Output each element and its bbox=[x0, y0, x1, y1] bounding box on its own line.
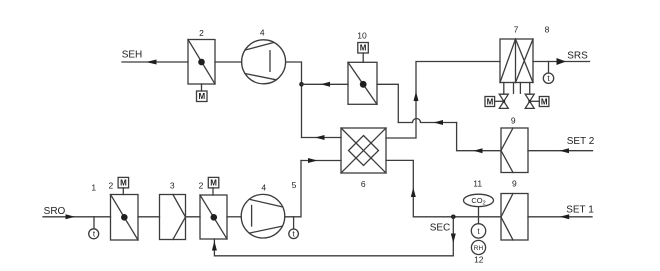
sensor t (pos 1, outdoor temp) bbox=[89, 217, 99, 239]
wire damper2 to fan4 (top) bbox=[215, 61, 242, 63]
wire supply riser from fan 4b bbox=[285, 161, 301, 217]
svg-text:9: 9 bbox=[512, 179, 517, 189]
svg-text:SET 2: SET 2 bbox=[567, 136, 595, 147]
wire SRS supply outlet bbox=[533, 61, 590, 63]
svg-text:t: t bbox=[547, 74, 550, 83]
wire SET1 main to HX6 (extract path) bbox=[386, 160, 501, 216]
wire damper10 right to downcomer bbox=[377, 84, 398, 122]
wire HX6 exhaust-out to riser bbox=[302, 137, 342, 139]
arrow on SEH wire (pointing left) bbox=[146, 60, 157, 65]
svg-text:t: t bbox=[292, 230, 295, 239]
actuator M of valve V1 bbox=[485, 97, 504, 107]
damper 2 (top exhaust) bbox=[188, 40, 215, 85]
wire damper10 to exhaust riser bbox=[302, 83, 349, 85]
sensor CO2 (pos 11) bbox=[464, 194, 494, 224]
wire SEH exhaust outlet bbox=[122, 61, 188, 63]
sensor t (pos 5, supply fan outlet) bbox=[289, 217, 299, 239]
arrow on SRS wire (pointing right) bbox=[557, 58, 567, 65]
actuator M of outdoor damper bbox=[118, 177, 129, 194]
valve V1 (left, heating) bbox=[499, 94, 508, 108]
svg-text:t: t bbox=[93, 229, 96, 238]
svg-text:11: 11 bbox=[473, 179, 482, 189]
fan 4 (exhaust fan) bbox=[242, 40, 286, 84]
svg-text:SET 1: SET 1 bbox=[566, 204, 594, 215]
actuator M of damper 10 bbox=[358, 43, 369, 63]
heating/cooling coil 7 bbox=[500, 39, 533, 83]
svg-text:1: 1 bbox=[91, 183, 96, 193]
svg-text:M: M bbox=[198, 92, 205, 101]
filter 9 (SET2) bbox=[501, 128, 528, 173]
damper 10 (recirculation) bbox=[348, 62, 377, 104]
wire damper2b to fan4b bbox=[227, 216, 241, 218]
wire filter3 to damper2b bbox=[186, 216, 201, 218]
arrow on SET1 inlet (pointing left) bbox=[560, 214, 570, 219]
svg-text:8: 8 bbox=[545, 25, 550, 35]
arrow on damper10 wire (pointing left) bbox=[321, 82, 330, 87]
actuator M of damper 2 (top) bbox=[197, 84, 208, 102]
svg-text:4: 4 bbox=[260, 28, 265, 38]
svg-text:2: 2 bbox=[199, 28, 204, 38]
svg-text:2: 2 bbox=[199, 180, 204, 190]
svg-text:M: M bbox=[360, 44, 367, 53]
arrow on SET2 branch (pointing left) bbox=[434, 120, 444, 125]
wire SET2 inlet bbox=[528, 150, 593, 152]
junction node SEC branch bbox=[451, 215, 456, 220]
svg-text:3: 3 bbox=[170, 181, 175, 191]
arrow up into supply damper bbox=[212, 241, 217, 251]
fan 4 (supply fan) bbox=[241, 194, 285, 238]
wire damper2 to filter3 bbox=[138, 216, 160, 218]
svg-text:SEC: SEC bbox=[430, 222, 451, 233]
arrow up on extract riser bbox=[411, 188, 416, 198]
svg-text:2: 2 bbox=[109, 180, 114, 190]
valve V2 (right, cooling) bbox=[525, 94, 534, 108]
filter 3 bbox=[160, 195, 186, 240]
junction node (recirc joins exhaust riser) bbox=[299, 82, 304, 87]
svg-text:12: 12 bbox=[474, 254, 484, 264]
svg-text:M: M bbox=[541, 97, 548, 106]
svg-text:RH: RH bbox=[474, 245, 484, 252]
svg-text:SRS: SRS bbox=[567, 51, 588, 62]
svg-text:6: 6 bbox=[361, 179, 366, 189]
damper 2 (recirc/supply) bbox=[200, 195, 227, 239]
coil pipe stubs bbox=[504, 83, 530, 95]
svg-text:10: 10 bbox=[357, 30, 367, 40]
svg-text:5: 5 bbox=[292, 180, 297, 190]
svg-text:9: 9 bbox=[511, 116, 516, 126]
sensor RH (pos 12b, humidity) bbox=[471, 240, 485, 254]
svg-text:7: 7 bbox=[514, 25, 519, 35]
wire SET2 branch vertical bbox=[457, 123, 501, 151]
svg-text:SEH: SEH bbox=[122, 49, 143, 60]
arrow down on SEC branch bbox=[451, 234, 456, 244]
arrow on SRO wire (pointing right) bbox=[66, 214, 76, 219]
svg-text:CO2: CO2 bbox=[471, 196, 485, 207]
actuator M of supply damper bbox=[208, 177, 219, 195]
damper 2 (outdoor air) bbox=[111, 195, 139, 241]
wire SRO outdoor inlet bbox=[43, 216, 111, 218]
svg-text:t: t bbox=[477, 227, 480, 236]
filter 9 (SET1) bbox=[501, 194, 528, 241]
arrow to filter9a wire (pointing left) bbox=[473, 148, 482, 153]
actuator M of valve V2 bbox=[530, 97, 549, 107]
wire supply into HX6 (lower-left) bbox=[301, 160, 341, 162]
sensor t (pos 8, supply air temp) bbox=[543, 62, 553, 84]
plate heat exchanger 6 bbox=[341, 128, 386, 173]
arrow on exhaust-out wire (pointing left) bbox=[315, 135, 325, 140]
svg-text:SRO: SRO bbox=[44, 206, 66, 217]
svg-text:M: M bbox=[487, 97, 494, 106]
arrow on SET2 inlet (pointing left) bbox=[560, 148, 570, 153]
wire SET1 inlet bbox=[528, 216, 592, 218]
wire SET2 branch horizontal with hop over supply riser bbox=[398, 119, 456, 123]
svg-text:4: 4 bbox=[261, 182, 266, 192]
svg-text:M: M bbox=[120, 179, 127, 188]
wire fan4 outlet to riser bbox=[286, 62, 302, 138]
wire SEC recirculation branch bbox=[214, 217, 453, 256]
arrow into HX6 (pointing right) bbox=[308, 158, 318, 163]
wire HX6 supply-out to coil 7 bbox=[386, 62, 500, 139]
sensor t (pos 12a, extract temp) bbox=[471, 224, 485, 238]
arrow up on supply riser bbox=[414, 92, 419, 102]
svg-text:M: M bbox=[210, 179, 217, 188]
